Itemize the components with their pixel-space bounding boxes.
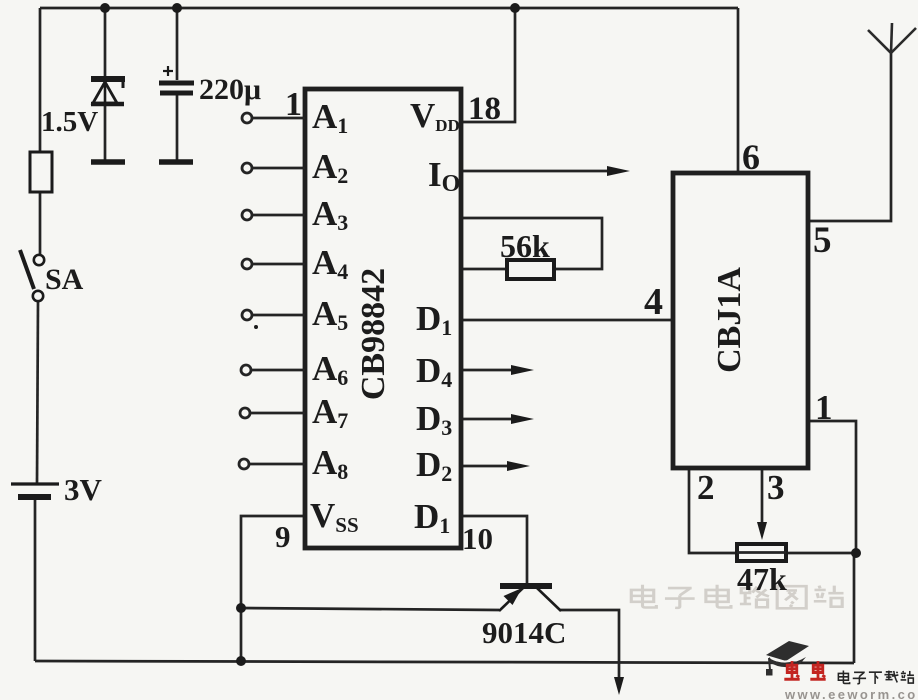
wire 56k left lead	[461, 268, 507, 271]
wire diode top lead	[104, 8, 107, 76]
wire collector to output arrow	[560, 610, 619, 690]
potentiometer 47k	[737, 522, 786, 561]
wire IO output	[461, 170, 612, 173]
wire bottom rail	[35, 661, 854, 663]
arrow D2	[507, 461, 530, 471]
wire D1 to CBJ1A pin4	[461, 319, 673, 322]
wire emitter line	[241, 608, 499, 610]
node top rail VDD junction	[510, 3, 520, 13]
switch SA	[20, 250, 44, 301]
svg-text:56k: 56k	[500, 228, 550, 264]
pin terminal A7	[240, 408, 305, 418]
svg-text:1.5V: 1.5V	[41, 106, 98, 138]
wire 56k loop top	[461, 218, 602, 269]
wire D1 pin10 to transistor base	[461, 516, 527, 583]
svg-text:1: 1	[815, 388, 833, 427]
wire rail to CBJ1A pin6	[737, 8, 740, 173]
diode VD 1.5V	[91, 79, 125, 162]
wire left vertical from rail to resistor	[39, 8, 42, 152]
svg-text:9014C: 9014C	[482, 615, 566, 650]
wire CBJ1A pin1 branch	[808, 421, 856, 553]
IC U1 CB98842	[305, 89, 461, 548]
pin terminal A5	[242, 310, 305, 329]
pin terminal A8	[239, 459, 305, 469]
wire top rail	[40, 7, 738, 10]
svg-text:CBJ1A: CBJ1A	[711, 267, 748, 373]
arrow D4	[511, 365, 534, 375]
logo mortarboard	[766, 641, 809, 676]
resistor 56k	[507, 260, 554, 279]
transistor Q1 9014C	[499, 586, 561, 611]
wire 47k right lead	[786, 552, 856, 555]
node emitter/VSS junction	[236, 603, 246, 613]
node top rail diode junction	[100, 3, 110, 13]
pin terminal A2	[242, 163, 305, 173]
svg-text:9: 9	[275, 519, 291, 554]
wire diode bottom lead	[104, 105, 107, 160]
antenna	[868, 23, 916, 53]
wire D2 output	[461, 465, 512, 468]
wire resistor to switch	[39, 192, 42, 254]
svg-text:6: 6	[742, 137, 760, 177]
svg-text:3V: 3V	[64, 472, 103, 507]
svg-text:18: 18	[468, 91, 501, 127]
svg-text:47k: 47k	[737, 561, 787, 597]
svg-text:2: 2	[697, 468, 715, 507]
wire switch to battery	[37, 302, 38, 483]
wire CBJ1A pin3 wiper lead	[761, 468, 764, 528]
wire CBJ1A pin5 to antenna	[808, 53, 891, 221]
resistor left	[30, 152, 52, 192]
svg-text:3: 3	[767, 468, 785, 507]
capacitor C 220u	[159, 66, 194, 162]
pin terminal A6	[241, 365, 305, 375]
watermark 电子电路图站	[631, 585, 843, 608]
node 47k right junction	[851, 548, 861, 558]
wire VDD pin18 branch	[461, 8, 515, 122]
svg-text:10: 10	[462, 521, 493, 556]
wire D4 output	[461, 369, 516, 372]
IC U2 CBJ1A	[673, 173, 808, 468]
wire right riser 47k junction to bottom rail	[853, 553, 856, 663]
arrow collector output	[614, 677, 624, 695]
svg-text:SA: SA	[45, 263, 84, 296]
logo 电子下载站	[838, 670, 914, 683]
wire VSS pin9 branch	[241, 516, 305, 661]
logo 虫虫	[784, 661, 825, 679]
pin terminal A1	[242, 113, 305, 123]
wire battery to bottom rail	[34, 499, 37, 661]
wire capacitor bottom lead	[176, 94, 179, 160]
wire CBJ1A pin2 branch	[689, 468, 737, 553]
pin terminal A4	[242, 259, 305, 269]
node top rail capacitor junction	[172, 3, 182, 13]
battery 3V	[11, 484, 59, 497]
pin terminal A3	[242, 210, 305, 220]
svg-text:5: 5	[813, 220, 832, 261]
node bottom rail left junction	[236, 656, 246, 666]
svg-text:CB98842: CB98842	[355, 268, 392, 400]
arrow IO	[607, 166, 630, 176]
svg-text:220μ: 220μ	[199, 73, 261, 106]
arrow D3	[511, 414, 534, 424]
wire D3 output	[461, 418, 516, 421]
svg-text:www.eeworm.com: www.eeworm.com	[784, 687, 918, 700]
svg-text:1: 1	[285, 86, 302, 123]
wire capacitor top lead	[176, 8, 179, 80]
svg-text:4: 4	[644, 281, 663, 323]
